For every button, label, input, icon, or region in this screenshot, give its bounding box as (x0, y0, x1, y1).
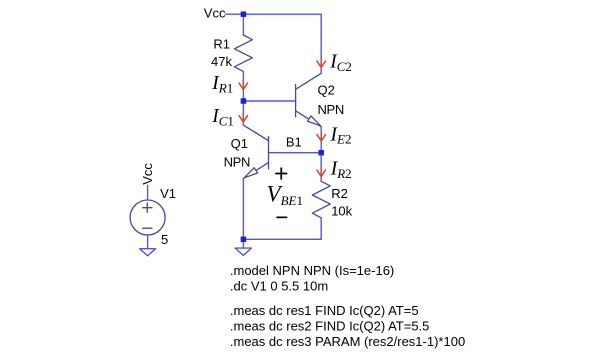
svg-text:Q2: Q2 (318, 83, 335, 98)
wire V1 bottom (147, 235, 149, 249)
svg-text:.meas dc res2 FIND Ic(Q2) AT=5: .meas dc res2 FIND Ic(Q2) AT=5.5 (230, 318, 430, 333)
svg-text:IE2: IE2 (330, 124, 352, 146)
wire Q1 emitter down to ground node (242, 179, 244, 240)
wire node to Q2 base (243, 100, 295, 102)
transistor Q2 (296, 73, 322, 127)
label minus (VBE1) (276, 217, 287, 219)
wire Vcc node down to R1 (242, 14, 244, 35)
svg-text:47k: 47k (211, 54, 232, 69)
svg-text:Vcc: Vcc (204, 6, 226, 21)
svg-text:R2: R2 (331, 186, 348, 201)
svg-text:IC1: IC1 (211, 106, 234, 128)
wire Q1 base to B1 node (269, 152, 322, 154)
current arrow I_C2 (317, 57, 326, 68)
junction B1 node (318, 150, 324, 156)
wire B1 down to R2 (320, 153, 322, 182)
svg-text:NPN: NPN (318, 102, 344, 117)
wire bottom horizontal (243, 238, 321, 240)
svg-text:.meas dc res3 PARAM (res2/res1: .meas dc res3 PARAM (res2/res1-1)*100 (230, 334, 465, 349)
svg-text:IR1: IR1 (211, 73, 233, 95)
svg-text:IC2: IC2 (329, 52, 352, 74)
svg-text:NPN: NPN (224, 155, 250, 170)
wire top horizontal (243, 13, 321, 15)
resistor R2 (312, 181, 330, 218)
ground (circuit) (235, 242, 251, 255)
svg-text:10k: 10k (331, 204, 352, 219)
svg-text:VBE1: VBE1 (267, 182, 303, 208)
junction Vcc node (241, 11, 247, 17)
svg-text:B1: B1 (286, 135, 302, 150)
ground (V1) (140, 249, 156, 256)
svg-text:.dc V1 0 5.5 10m: .dc V1 0 5.5 10m (230, 279, 328, 294)
wire Vcc label stub (226, 13, 241, 15)
voltage source V1 (130, 200, 165, 235)
current arrow I_R1 (239, 80, 248, 90)
svg-text:.model NPN NPN (Is=1e-16): .model NPN NPN (Is=1e-16) (230, 263, 394, 278)
resistor R1 (234, 35, 252, 71)
wire R1 bottom to node (242, 71, 244, 101)
current arrow I_R2 (317, 167, 326, 177)
wire V1 top (147, 185, 149, 200)
wire node down to Q1 collector (242, 101, 244, 125)
transistor Q1 (mirrored) (243, 125, 268, 179)
junction node R1/Q2 base (241, 98, 247, 104)
current arrow I_C1 (239, 112, 248, 122)
svg-text:IR2: IR2 (330, 159, 352, 181)
junction ground node (241, 237, 247, 243)
label plus (VBE1) (276, 168, 287, 179)
svg-text:5: 5 (161, 232, 168, 247)
svg-text:R1: R1 (213, 37, 230, 52)
svg-text:Q1: Q1 (231, 136, 248, 151)
current arrow I_E2 (317, 132, 326, 141)
wire top right vertical to Q2 collector (320, 14, 322, 73)
svg-text:V1: V1 (160, 186, 176, 201)
wire R2 bottom to bottom rail (320, 218, 322, 240)
wire Q2 emitter down to B1 node (320, 127, 322, 153)
svg-text:Vcc: Vcc (140, 163, 155, 185)
svg-text:.meas dc res1 FIND Ic(Q2) AT=5: .meas dc res1 FIND Ic(Q2) AT=5 (230, 303, 419, 318)
